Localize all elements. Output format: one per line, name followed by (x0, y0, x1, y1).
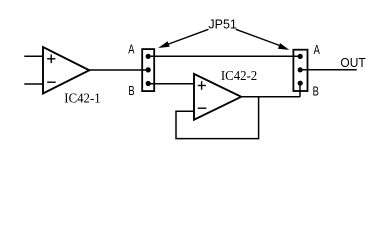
svg-text:OUT: OUT (340, 56, 366, 70)
svg-text:A: A (128, 43, 135, 57)
svg-text:IC42-2: IC42-2 (221, 67, 257, 83)
svg-text:IC42-1: IC42-1 (64, 90, 100, 106)
svg-text:B: B (128, 85, 134, 99)
svg-text:JP51: JP51 (208, 18, 237, 32)
svg-text:A: A (314, 44, 321, 58)
svg-text:B: B (313, 85, 319, 99)
